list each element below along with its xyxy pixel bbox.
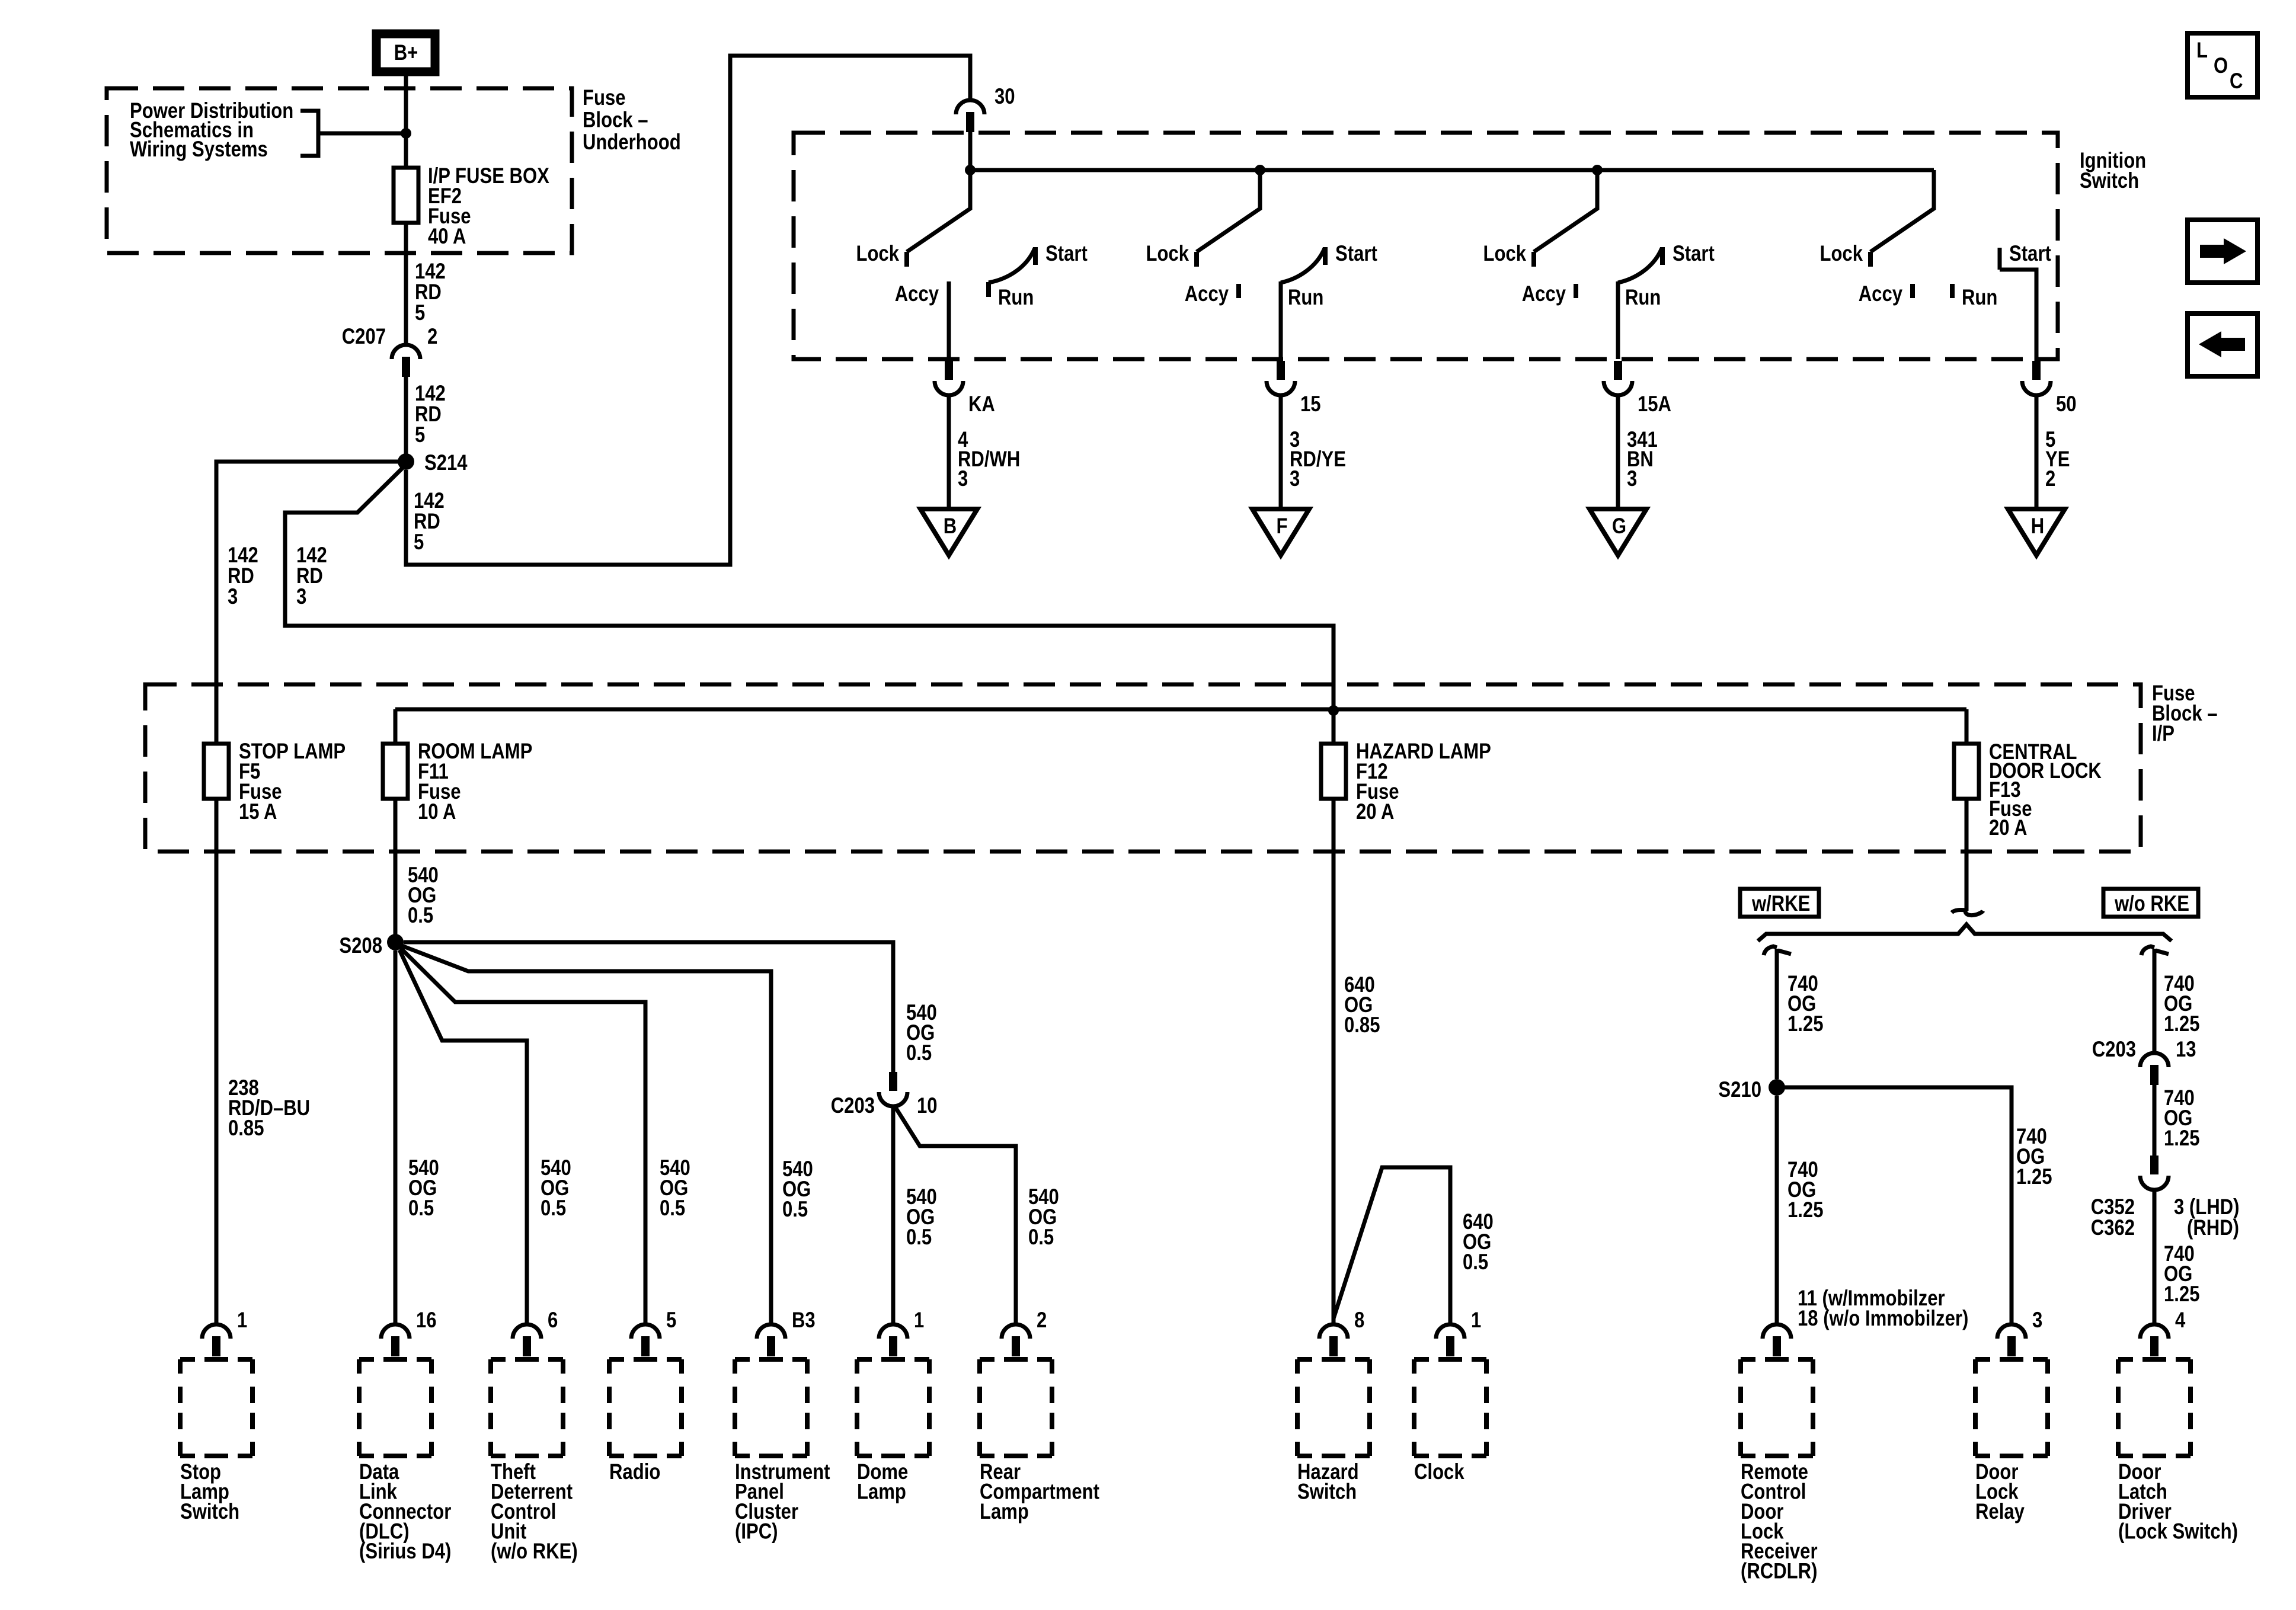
component box Door Lock Relay	[1975, 1359, 2048, 1456]
connector pin at Hazard Switch	[1319, 1324, 1348, 1356]
splice S210	[1769, 1079, 1785, 1096]
svg-text:Lamp: Lamp	[857, 1480, 906, 1504]
ignition unit 2 wiper arm to Lock	[1197, 170, 1260, 252]
svg-text:(Lock Switch): (Lock Switch)	[2118, 1519, 2238, 1544]
svg-text:0.5: 0.5	[906, 1225, 932, 1250]
svg-text:L: L	[2196, 39, 2208, 63]
wire terminal 30 into switch	[968, 132, 973, 170]
component box Clock	[1414, 1359, 1486, 1456]
ignition unit 4 Start contact and elbow	[2000, 248, 2036, 361]
fuse F5 STOP LAMP 15 A	[204, 744, 229, 799]
wire C207 to S214	[404, 376, 408, 454]
svg-text:0.5: 0.5	[408, 1196, 434, 1221]
svg-text:Switch: Switch	[180, 1500, 239, 1524]
svg-text:2: 2	[2045, 467, 2055, 491]
svg-text:8: 8	[1354, 1308, 1364, 1333]
svg-text:Wiring Systems: Wiring Systems	[130, 137, 268, 162]
connector pin at Clock	[1436, 1324, 1464, 1356]
junction dot ignition unit 1	[965, 165, 976, 175]
ignition unit 2 Start contact	[1323, 247, 1328, 265]
svg-text:w/o RKE: w/o RKE	[2114, 892, 2189, 916]
svg-text:Relay: Relay	[1975, 1500, 2025, 1524]
ignition unit 1 Run-Start curve	[989, 248, 1035, 283]
connector pin at Radio	[631, 1324, 660, 1356]
option split squiggle	[1952, 910, 1983, 915]
page connector triangle G	[1590, 509, 1646, 555]
svg-text:0.5: 0.5	[541, 1196, 566, 1221]
svg-text:I/P: I/P	[2152, 722, 2175, 746]
svg-text:(w/o RKE): (w/o RKE)	[491, 1539, 578, 1564]
note bracket Power Distribution Schematics in Wiring Systems	[300, 111, 401, 156]
svg-text:1.25: 1.25	[1787, 1198, 1823, 1222]
power terminal B+ box	[376, 34, 435, 72]
svg-text:Start: Start	[2009, 242, 2051, 266]
svg-text:3: 3	[1627, 467, 1637, 491]
connector C207	[392, 345, 420, 377]
wire S208 to instrument panel cluster	[402, 946, 771, 1324]
wire F12 to hazard switch	[1332, 799, 1336, 1324]
svg-text:20 A: 20 A	[1356, 800, 1394, 824]
svg-text:1.25: 1.25	[2164, 1282, 2199, 1307]
svg-text:0.5: 0.5	[906, 1041, 932, 1065]
wire ignition output 1 to page connector	[947, 395, 951, 509]
connector pin at Theft Deterrent Control Unit	[513, 1324, 541, 1356]
svg-text:0.85: 0.85	[1344, 1013, 1380, 1038]
component box Remote Control Door Lock Receiver RCDLR	[1741, 1359, 1813, 1456]
splice S214	[398, 453, 414, 470]
wire S208 to C203-10	[404, 942, 893, 1072]
svg-text:C207: C207	[342, 325, 386, 349]
wire S208 to theft deterrent	[399, 950, 527, 1324]
svg-text:5: 5	[415, 423, 425, 447]
ignition unit 2 Accy contact	[1236, 284, 1241, 298]
svg-text:Accy: Accy	[1859, 282, 1902, 306]
wire w/o RKE branch to C203	[2153, 949, 2157, 1053]
svg-text:1.25: 1.25	[2016, 1165, 2052, 1189]
connector pin at Door Latch Driver Lock Switch	[2140, 1324, 2169, 1356]
svg-text:S210: S210	[1718, 1078, 1761, 1102]
ignition switch supply bus	[970, 168, 1934, 172]
svg-text:15: 15	[1300, 392, 1321, 417]
svg-text:5: 5	[414, 530, 424, 555]
Fuse Block - Underhood dashed box	[107, 88, 572, 253]
svg-text:10: 10	[917, 1094, 938, 1118]
svg-text:KA: KA	[968, 392, 995, 417]
connector pin at Dome Lamp	[879, 1324, 907, 1356]
wire ignition output 3 to page connector	[1616, 395, 1620, 509]
svg-text:w/RKE: w/RKE	[1751, 892, 1810, 916]
fuse F13 CENTRAL DOOR LOCK 20 A	[1954, 744, 1979, 799]
wire EF2 to C207	[404, 223, 408, 345]
svg-text:H: H	[2031, 514, 2044, 539]
svg-text:(IPC): (IPC)	[735, 1519, 778, 1544]
svg-text:Clock: Clock	[1414, 1460, 1465, 1484]
wire bus corner to F13	[1965, 709, 1969, 744]
svg-text:(Sirius D4): (Sirius D4)	[359, 1539, 451, 1564]
component box Hazard Switch	[1297, 1359, 1370, 1456]
svg-text:15 A: 15 A	[239, 800, 277, 824]
svg-text:4: 4	[2175, 1308, 2185, 1333]
component box Door Latch Driver Lock Switch	[2118, 1359, 2191, 1456]
ignition unit 1 Accy contact wire	[947, 281, 951, 359]
svg-text:3: 3	[958, 467, 968, 491]
svg-text:Accy: Accy	[1522, 282, 1566, 306]
svg-text:Radio: Radio	[609, 1460, 660, 1484]
svg-text:1.25: 1.25	[2164, 1126, 2199, 1151]
svg-text:Block –: Block –	[583, 108, 648, 132]
page connector triangle H	[2008, 509, 2065, 555]
svg-text:B: B	[944, 514, 957, 539]
svg-text:40 A: 40 A	[428, 225, 466, 249]
svg-text:F: F	[1277, 514, 1288, 539]
page connector triangle B	[920, 509, 977, 555]
ignition unit 4 Run contact	[1950, 284, 1955, 298]
component box Theft Deterrent Control Unit	[491, 1359, 563, 1456]
connector C203 pin 13	[2140, 1053, 2169, 1085]
svg-text:Run: Run	[1962, 286, 1997, 310]
wire S208 to DLC	[394, 950, 398, 1324]
svg-text:Fuse: Fuse	[583, 86, 626, 110]
legend LOC box	[2188, 33, 2257, 97]
ignition unit 4 wiper arm to Lock	[1870, 170, 1934, 252]
svg-text:Lock: Lock	[856, 242, 899, 266]
svg-text:Switch: Switch	[1297, 1480, 1357, 1504]
svg-text:2: 2	[1037, 1308, 1047, 1333]
branch hook w/o RKE	[2141, 946, 2169, 955]
svg-text:3: 3	[2032, 1308, 2042, 1333]
junction dot F12 feed	[1328, 705, 1339, 716]
wire ignition output 2 to page connector	[1279, 395, 1283, 509]
svg-text:3: 3	[1290, 467, 1300, 491]
svg-text:B+: B+	[394, 41, 418, 65]
wire C203-13 to C352	[2153, 1085, 2157, 1156]
svg-text:1.25: 1.25	[1787, 1012, 1823, 1036]
svg-text:O: O	[2214, 54, 2228, 78]
connector 15A at ignition output 3	[1604, 361, 1632, 395]
ignition unit 1 wiper arm to Lock	[907, 170, 970, 252]
connector pin at Door Lock Relay	[1997, 1324, 2026, 1356]
svg-text:Run: Run	[1288, 286, 1323, 310]
legend left arrow box	[2188, 313, 2257, 376]
legend right arrow box	[2188, 220, 2257, 283]
svg-text:0.5: 0.5	[1028, 1225, 1054, 1250]
component box Instrument Panel Cluster IPC	[735, 1359, 807, 1456]
svg-text:Accy: Accy	[895, 282, 939, 306]
ignition unit 3 wiper arm to Lock	[1534, 170, 1597, 252]
svg-text:Accy: Accy	[1185, 282, 1229, 306]
ignition unit 3 Accy contact	[1574, 284, 1578, 298]
connector pin at Rear Compartment Lamp	[1002, 1324, 1030, 1356]
wire S208 to radio	[401, 948, 645, 1324]
component box Dome Lamp	[857, 1359, 929, 1456]
svg-text:3: 3	[296, 585, 306, 609]
svg-text:Lock: Lock	[1483, 242, 1526, 266]
ignition unit 3 Run-Start curve	[1618, 248, 1662, 283]
wire B+ to fuse EF2	[404, 76, 408, 168]
svg-text:16: 16	[416, 1308, 437, 1333]
connector pin at Instrument Panel Cluster IPC	[757, 1324, 785, 1356]
wire bus to F11	[394, 709, 398, 744]
svg-text:6: 6	[548, 1308, 558, 1333]
component box Radio	[609, 1359, 682, 1456]
fuse F12 HAZARD LAMP 20 A	[1321, 744, 1346, 799]
svg-text:0.5: 0.5	[408, 904, 433, 928]
component box Rear Compartment Lamp	[980, 1359, 1052, 1456]
svg-text:0.5: 0.5	[782, 1198, 808, 1222]
svg-text:15A: 15A	[1638, 392, 1671, 417]
svg-text:30: 30	[994, 85, 1015, 109]
svg-text:1: 1	[914, 1308, 924, 1333]
connector C203 pin 10	[879, 1072, 907, 1106]
wire F5 to stop lamp switch	[215, 799, 219, 1324]
connector 50 at ignition output 4	[2022, 361, 2051, 395]
svg-text:S208: S208	[339, 934, 382, 958]
svg-text:Lamp: Lamp	[980, 1500, 1029, 1524]
wire C203 to dome lamp	[891, 1106, 896, 1324]
connector pin at Data Link Connector DLC	[381, 1324, 410, 1356]
svg-text:10 A: 10 A	[418, 800, 456, 824]
svg-text:5: 5	[415, 301, 425, 325]
connector pin at Stop Lamp Switch	[202, 1324, 231, 1356]
page connector triangle F	[1252, 509, 1309, 555]
wire S210 to RCDLR	[1775, 1096, 1779, 1324]
junction dot ignition unit 2	[1255, 165, 1265, 175]
wire ignition output 4 to page connector	[2035, 395, 2039, 509]
I/P fuse feed bus	[395, 708, 1966, 712]
svg-text:3: 3	[228, 585, 238, 609]
wire w/RKE branch to S210	[1775, 949, 1779, 1079]
svg-text:2: 2	[427, 325, 437, 349]
svg-text:(RHD): (RHD)	[2187, 1216, 2239, 1240]
svg-text:C203: C203	[831, 1094, 875, 1118]
wire C203 to rear compartment lamp	[896, 1108, 1016, 1324]
svg-text:C362: C362	[2091, 1216, 2135, 1240]
option tag w/o RKE box	[2103, 889, 2198, 917]
svg-text:Start: Start	[1045, 242, 1088, 266]
Fuse Block - I/P dashed box	[145, 684, 2141, 852]
ignition unit 4 Lock contact	[1868, 252, 1873, 267]
ignition unit 4 Accy contact	[1910, 284, 1915, 298]
ignition unit 3 Run contact wire	[1616, 281, 1620, 359]
wire hazard to clock branch	[1334, 1167, 1450, 1324]
svg-text:Start: Start	[1335, 242, 1377, 266]
ignition unit 1 Start contact	[1033, 247, 1038, 265]
ignition unit 1 Lock contact	[904, 252, 909, 267]
svg-text:20 A: 20 A	[1989, 816, 2027, 840]
fuse EF2 I/P FUSE BOX 40 A	[394, 168, 418, 223]
splice S208	[387, 934, 404, 950]
svg-text:Switch: Switch	[2080, 169, 2139, 193]
wire S214 down to ignition feed riser	[406, 56, 970, 565]
option tag w/RKE box	[1740, 889, 1819, 917]
wire junction to F12	[1332, 710, 1336, 744]
svg-text:0.85: 0.85	[228, 1116, 264, 1141]
connector pin at Remote Control Door Lock Receiver RCDLR	[1763, 1324, 1791, 1356]
branch hook w/RKE	[1764, 946, 1791, 955]
svg-text:0.5: 0.5	[1463, 1250, 1488, 1275]
svg-text:18 (w/o Immobilzer): 18 (w/o Immobilzer)	[1798, 1307, 1968, 1331]
junction dot ignition unit 3	[1592, 165, 1603, 175]
svg-text:5: 5	[666, 1308, 676, 1333]
connector KA at ignition output 1	[935, 361, 963, 395]
ignition unit 2 Run contact wire	[1279, 281, 1283, 359]
svg-text:0.5: 0.5	[660, 1196, 685, 1221]
ignition unit 2 Lock contact	[1194, 252, 1199, 267]
svg-text:Run: Run	[998, 286, 1034, 310]
svg-text:50: 50	[2056, 392, 2077, 417]
svg-text:13: 13	[2176, 1038, 2196, 1062]
svg-text:C203: C203	[2092, 1038, 2136, 1062]
svg-text:Lock: Lock	[1819, 242, 1863, 266]
connector 15 at ignition output 2	[1267, 361, 1295, 395]
junction dot on B+ feed	[401, 128, 411, 139]
ignition unit 1 Run contact	[986, 282, 991, 297]
connector C352 C362 pin 3	[2140, 1156, 2169, 1190]
wire F13 down to option split	[1965, 799, 1969, 911]
svg-text:1.25: 1.25	[2164, 1012, 2199, 1036]
svg-text:Run: Run	[1625, 286, 1661, 310]
wire S210 to door lock relay	[1784, 1087, 2012, 1324]
Ignition Switch dashed box	[794, 133, 2058, 359]
wire C352 to door latch driver	[2153, 1190, 2157, 1324]
svg-text:1: 1	[237, 1308, 247, 1333]
connector terminal 30	[956, 100, 984, 132]
ignition unit 3 Lock contact	[1531, 252, 1536, 267]
component box Stop Lamp Switch	[180, 1359, 252, 1456]
svg-text:Lock: Lock	[1146, 242, 1189, 266]
ignition unit 2 Run-Start curve	[1281, 248, 1325, 283]
svg-text:Start: Start	[1673, 242, 1715, 266]
svg-text:G: G	[1612, 514, 1626, 539]
component box Data Link Connector DLC	[359, 1359, 431, 1456]
wire S214 diagonal branch to I/P feed	[285, 468, 1334, 710]
svg-text:S214: S214	[424, 451, 468, 475]
svg-text:B3: B3	[792, 1308, 816, 1333]
svg-text:(RCDLR): (RCDLR)	[1741, 1559, 1817, 1583]
svg-text:1: 1	[1471, 1308, 1481, 1333]
option split brace	[1758, 924, 2172, 941]
fuse F11 ROOM LAMP 10 A	[383, 744, 408, 799]
svg-text:C: C	[2230, 69, 2243, 94]
wire S214 left to stop lamp fuse F5	[216, 462, 399, 744]
wire F11 to S208	[394, 799, 398, 934]
svg-text:Underhood: Underhood	[583, 130, 681, 155]
ignition unit 3 Start contact	[1660, 247, 1665, 265]
